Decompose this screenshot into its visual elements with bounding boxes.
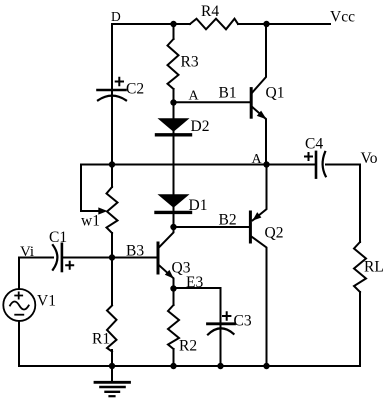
svg-text:B1: B1 bbox=[219, 85, 237, 102]
transistor Q1 base bar bbox=[250, 89, 253, 118]
wire top rail left segment (D corner to R4) bbox=[112, 23, 190, 25]
transistor Q3 emitter bbox=[159, 265, 174, 288]
wire Vi input bbox=[19, 257, 53, 259]
capacitor C4 curved plate bbox=[323, 152, 326, 176]
svg-text:R2: R2 bbox=[179, 338, 197, 355]
source V1 sine bbox=[10, 302, 29, 310]
svg-text:A: A bbox=[189, 89, 200, 104]
capacitor C2 plus sign bbox=[116, 78, 123, 85]
wire wiper loop down bbox=[81, 165, 99, 212]
node B3 junction bbox=[109, 254, 115, 260]
transistor Q3 emitter arrow bbox=[165, 270, 174, 279]
transistor Q3 base bar bbox=[157, 243, 160, 273]
node A (bias upper) bbox=[170, 99, 176, 105]
junction on top rail at Q1 collector bbox=[263, 21, 269, 27]
ground symbol bbox=[95, 366, 130, 396]
transistor Q2 emitter bbox=[253, 165, 267, 221]
junction rail at C3 bbox=[217, 363, 223, 369]
resistor R2 bbox=[168, 289, 179, 367]
transistor Q2 base bar bbox=[249, 212, 252, 242]
wire node A to C4 bbox=[267, 164, 316, 166]
junction diode chain / B2 bbox=[170, 224, 176, 230]
capacitor C2 curved plate bbox=[98, 96, 126, 101]
svg-text:V1: V1 bbox=[37, 293, 56, 310]
wire C1 to Q3 base bbox=[62, 257, 158, 259]
source V1 plus bbox=[15, 292, 22, 298]
svg-text:D2: D2 bbox=[191, 118, 210, 135]
resistor R1 bbox=[107, 258, 117, 367]
wire E3 to C3 bbox=[174, 288, 221, 323]
svg-text:w1: w1 bbox=[81, 213, 100, 230]
potentiometer w1 bbox=[107, 165, 118, 258]
svg-text:C3: C3 bbox=[234, 313, 252, 330]
svg-text:Vi: Vi bbox=[20, 244, 34, 260]
node E3 junction bbox=[170, 285, 176, 291]
transistor Q2 collector bbox=[251, 236, 266, 366]
svg-text:Q2: Q2 bbox=[265, 225, 284, 242]
junction rail at R2 bbox=[170, 363, 176, 369]
capacitor C4 plus sign bbox=[305, 153, 312, 160]
diode D2 bbox=[157, 118, 191, 135]
svg-text:Q1: Q1 bbox=[266, 85, 285, 102]
capacitor C1 plus sign bbox=[66, 262, 73, 269]
capacitor C1 curved plate bbox=[53, 245, 58, 270]
transistor Q2 emitter arrow bbox=[252, 212, 261, 221]
svg-text:B3: B3 bbox=[126, 243, 144, 260]
capacitor C1 plate bbox=[61, 244, 64, 271]
resistor R4 bbox=[190, 19, 238, 30]
wire bottom rail bbox=[19, 365, 360, 367]
capacitor C3 curved plate bbox=[208, 328, 234, 334]
svg-text:C4: C4 bbox=[305, 136, 323, 153]
junction rail at Q2 collector bbox=[263, 363, 269, 369]
wire C4 to Vo corner bbox=[326, 165, 360, 243]
svg-text:D: D bbox=[111, 9, 121, 24]
transistor Q1 emitter bbox=[252, 107, 266, 165]
junction mid wire at w1 top bbox=[109, 161, 115, 167]
diode D1 bbox=[156, 194, 191, 212]
wire B2 (junction to Q2 base) bbox=[174, 226, 250, 228]
junction on top rail at R3 bbox=[170, 21, 176, 27]
wire V1 bottom to rail bbox=[18, 321, 20, 366]
svg-text:D1: D1 bbox=[189, 197, 208, 214]
transistor Q1 emitter arrow bbox=[257, 111, 267, 120]
svg-text:R1: R1 bbox=[92, 331, 110, 348]
source V1 circle bbox=[3, 289, 35, 321]
svg-text:Vo: Vo bbox=[361, 150, 378, 167]
source V1 minus bbox=[15, 314, 23, 316]
wire diode chain stem (node A down to B2 junction) bbox=[173, 103, 175, 228]
resistor RL bbox=[354, 242, 366, 366]
svg-text:A: A bbox=[252, 152, 263, 167]
transistor Q3 collector bbox=[159, 227, 174, 247]
svg-text:RL: RL bbox=[364, 259, 384, 276]
junction rail at R1/ground bbox=[109, 363, 115, 369]
svg-text:R4: R4 bbox=[201, 3, 219, 20]
svg-text:C1: C1 bbox=[49, 229, 67, 246]
capacitor C4 plate bbox=[315, 152, 318, 178]
node A output junction bbox=[263, 161, 269, 167]
capacitor C3 plus sign bbox=[223, 312, 230, 319]
capacitor C3 plate bbox=[208, 322, 235, 325]
resistor R3 bbox=[168, 24, 179, 103]
capacitor C2 plate bbox=[98, 89, 126, 92]
wire V1 top to Vi bbox=[18, 258, 20, 290]
svg-text:R3: R3 bbox=[181, 54, 199, 71]
transistor Q1 collector bbox=[252, 24, 266, 93]
svg-text:Vcc: Vcc bbox=[330, 9, 355, 26]
svg-text:C2: C2 bbox=[126, 81, 144, 98]
wire left branch from D down through C2 bbox=[111, 24, 113, 165]
wire top rail right segment (R4 to Vcc) bbox=[238, 23, 330, 25]
svg-text:B2: B2 bbox=[219, 212, 237, 229]
wire base B1 (node A to Q1 base) bbox=[174, 101, 252, 103]
wire mid horizontal (feedback to node A) bbox=[81, 164, 267, 166]
wire C3 to ground rail bbox=[220, 323, 222, 366]
potentiometer w1 wiper arrow bbox=[98, 207, 107, 214]
